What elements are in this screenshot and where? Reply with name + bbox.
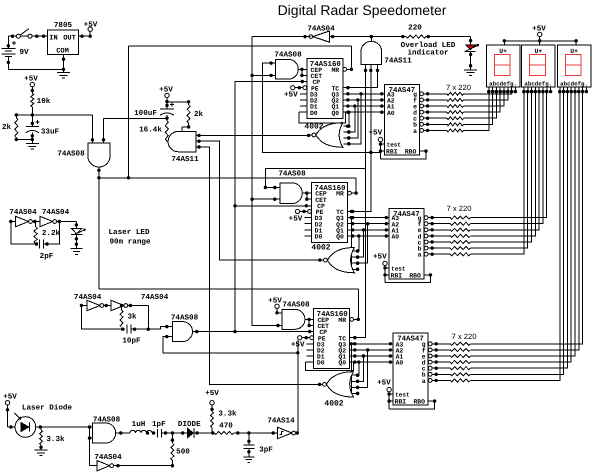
resistor 3.3k (rx bias) [210,405,237,433]
photodiode D3 laser receiver [15,413,36,437]
wire reset branch up-left [129,46,352,178]
wire Q0 to 4002 in1 stage 1 [346,111,351,128]
power terminal +5V (rx bias) [205,390,219,405]
and-gate U2a 74AS08 (reset gate) [57,143,110,167]
counter U6 74AS160 (stage 2) [312,183,348,243]
pin labels 74AS160 stage 1 [310,67,339,117]
svg-text:3pF: 3pF [259,446,273,455]
svg-text:U+: U+ [570,48,578,55]
svg-text:+5V: +5V [373,253,387,261]
svg-text:RBO: RBO [409,273,421,280]
and-gate U2b 74AS08 (stage1 clk) [274,51,302,80]
svg-text:MR: MR [336,191,344,198]
svg-text:D0: D0 [315,234,323,241]
svg-text:+5V: +5V [84,22,98,30]
decoder U13 74AS47 (stage 3) [393,333,428,405]
wire gate4 in1 from +5V [275,309,282,315]
resistor 2k (reset) [2,115,18,138]
wire 16.4k to gate out [167,140,172,143]
wire clock to CP2 [235,204,312,207]
svg-text:MR: MR [338,317,346,324]
resistor 220 (overload) [403,24,430,39]
wire Q1 to 4002 in2 stage 2 [356,228,365,259]
pin bubbles segments stage 2 [424,216,434,256]
text overload label [401,41,456,58]
svg-text:COM: COM [56,48,69,56]
wire gate5 output clock [193,330,314,333]
wire +5V to 2k [167,100,190,103]
wire T1 out to T2 in [33,220,40,223]
wire 3.3k to ground [39,445,42,450]
wire +5V test RBI stage 1 [379,142,385,159]
wire 10k to node [31,107,34,127]
pin stubs display 3 [558,87,588,93]
display DS3 7-segment [558,45,591,87]
wire rail to T6 [90,465,97,467]
pin stubs 4002 stage 2 [352,249,359,271]
wire RBO loop stage 3 [389,399,436,409]
pin MR stage 3 [350,318,360,322]
wire receiver rail vertical [250,37,278,326]
and-gate U3a 74AS11 (osc2) [168,131,199,164]
svg-text:Q0: Q0 [336,234,344,241]
wire D0-Q0 loop stage 3 [306,362,354,370]
power terminal +5V (reset rc) [24,76,38,87]
svg-text:RBO: RBO [413,399,425,406]
and-gate U2d 74AS08 (stage3 clk) [282,301,310,330]
inverter U13a 74AS04 [9,208,37,227]
wire stage2 gate in1 tap [265,168,365,187]
wire gate4 out to CEP3 CET3 [305,318,314,328]
and-gate U3b 74AS11 (TC combine) [361,41,412,65]
svg-text:74AS04: 74AS04 [94,453,122,462]
power terminal +5V (osc2) [159,87,173,98]
svg-text:U+: U+ [534,48,542,55]
wire coil to 1pF [146,431,156,434]
resistor 10k [31,93,51,107]
wire 10pF right [131,327,167,331]
svg-text:Q0: Q0 [338,360,346,367]
text laser diode label [22,404,73,413]
wire gate1 output [97,167,100,180]
wire +5V to 10k [31,87,34,94]
svg-text:1pF: 1pF [152,421,166,429]
ground below 33uF [26,140,39,150]
svg-text:abcdefg.: abcdefg. [524,80,552,87]
svg-text:test: test [391,265,406,272]
pin stubs D2 D1 stage 3 [307,350,314,356]
wire T4 out down [147,306,149,330]
svg-text:3.3k: 3.3k [46,435,65,444]
svg-text:U+: U+ [499,48,507,55]
svg-text:2k: 2k [194,110,204,119]
wire gate3 out to CEP2 CET2 [302,191,311,200]
wire +5V test RBI stage 3 [387,392,393,409]
svg-text:100uF: 100uF [134,109,157,118]
pin MR stage 2 [348,191,358,195]
resistor 500 [171,433,191,466]
svg-text:500: 500 [176,448,190,457]
wire RBO loop stage 2 [385,273,432,283]
pin labels 74AS47 stage 1 [386,91,417,156]
power terminal +5V (47 stage 1) [368,130,382,142]
svg-text:Laser Diode: Laser Diode [22,404,73,413]
wire T3 input [80,304,87,307]
wire inverter input row [329,35,404,38]
svg-text:+5V: +5V [289,215,303,223]
wire T3 out to T4 in [104,304,111,307]
wire inverter out to receiver rail [252,35,311,38]
counter U5 74AS160 (stage 1) [307,59,343,119]
wire +5V display rail [503,37,578,45]
pin stubs display 2 [522,87,552,93]
pin stub gate6 in2 [88,436,93,439]
pin stub D0 stage 2 [305,235,312,237]
display DS2 7-segment [522,45,555,87]
svg-text:74AS14: 74AS14 [267,417,295,426]
wire Q0 to 4002 in1 stage 2 [356,234,361,252]
svg-text:indicator: indicator [407,49,448,58]
wire gate2 in1 +5V loop [263,61,381,154]
led D2 laser (TX) [71,228,85,248]
power terminal +5V (7805 out) [84,22,98,32]
svg-text:3.3k: 3.3k [218,410,237,419]
pin MR stage 1 [343,67,353,71]
svg-text:4002: 4002 [311,244,330,253]
wire cap bottom row [104,118,168,120]
svg-text:Laser LED: Laser LED [108,229,149,237]
and-gate U2e 74AS08 (clock) [171,314,199,342]
wire 74AS11#1 in3 from 4002#3 [199,147,321,386]
wire T1 input [9,220,16,223]
pin bubbles segments stage 3 [428,342,438,382]
svg-text:74AS08: 74AS08 [278,170,306,179]
svg-text:74AS11: 74AS11 [384,57,412,66]
counter U7 74AS160 (stage 3) [314,309,350,369]
switch SW1 [8,29,47,39]
pin stubs display 1 [487,87,517,93]
svg-text:+5V: +5V [377,380,391,388]
svg-text:90m range: 90m range [109,238,150,247]
wire TC2 to 74AS11#2 in2 [347,70,372,213]
pin labels 74AS160 stage 2 [315,191,344,241]
svg-text:abcdefg.: abcdefg. [489,80,517,87]
svg-text:2k: 2k [2,123,12,132]
wire node row [15,113,93,116]
wire Q1 to 4002 in2 stage 1 [347,104,356,133]
svg-text:74AS08: 74AS08 [274,51,302,60]
ground below 3pF [243,457,254,463]
wire 74AS11#1 in1 from 4002#1 [199,134,310,137]
svg-text:a: a [422,378,426,385]
resistor array 7x220 stage 1 [428,83,471,132]
wire Q to A bus stage 1 [343,92,385,114]
inverter U13e 74AS04 (rx) [94,453,122,471]
diode D4 detector [188,428,194,438]
wire 2k to gate top [182,123,190,131]
power terminal +5V (47 stage 3) [377,380,391,392]
pin stubs gate5 [165,325,172,338]
capacitor 33uF [26,120,60,139]
wire TC3 to 74AS11#2 in1 [350,70,366,339]
ground below 7805 [57,69,70,78]
wire reset line horizontal [99,176,356,179]
svg-text:A0: A0 [396,360,404,367]
inverter U4a 74AS04 (overload) [307,25,335,43]
svg-text:a: a [413,128,417,135]
wire segment bus stage 3 [470,90,584,381]
wire Q2 to 4002 in3 stage 1 [347,98,359,139]
resistor array 7x220 stage 3 [436,332,476,382]
pin stub gate2 in2 [271,74,275,76]
wire D0-Q0 loop stage 1 [299,112,345,123]
inverter U13c 74AS04 [74,293,104,311]
power terminal +5V (stage3 gate) [268,298,282,309]
capacitor 2pF [39,240,53,262]
svg-text:A0: A0 [387,110,395,117]
and-gate U2c 74AS08 (stage2 clk) [278,170,306,204]
wire 4002 output stub stage 1 [309,134,312,136]
wire gate5 in2 loop [163,337,299,355]
wire clock rail [233,80,306,333]
wire Q to A bus stage 3 [350,342,393,364]
resistor 3k [120,304,137,327]
resistor 470 [215,422,278,435]
pin stubs D2 D1 stage 1 [300,100,307,106]
pin stubs 4002 stage 1 [343,125,350,146]
svg-text:Digital Radar Speedometer: Digital Radar Speedometer [278,2,447,18]
net +5V to D3 stage 1 [284,92,307,100]
pin stubs D2 D1 stage 2 [305,224,312,230]
pin stubs 74AS11#2 inputs [364,65,379,72]
decoder U12 74AS47 (stage 2) [389,208,424,279]
wire Q2 to 4002 in3 stage 3 [356,348,370,389]
inverter U13b 74AS04 [40,208,70,227]
wire +5V to photodiode [6,405,15,429]
wire 7805 OUT [78,31,92,38]
svg-text:74AS04: 74AS04 [141,293,169,302]
svg-text:7 x 220: 7 x 220 [447,204,472,213]
wire reset to MR2 [355,178,357,193]
svg-text:10pF: 10pF [122,337,141,346]
resistor 2k (osc2) [187,102,203,123]
wire diode out [194,431,215,434]
pin labels 74AS47 stage 2 [391,215,422,280]
nor-gate U8 4002 stage 1 [304,122,343,147]
wire gate1 output down rail [99,178,358,320]
led D1 overload (red) [465,45,479,70]
wire +5V osc2 [165,98,168,110]
pin stub gate3 in2 [275,198,280,200]
pin PE-bar stage 3 [298,336,314,340]
pin stubs 74AS11#1 inputs [196,134,201,149]
wire +5V test RBI stage 2 [383,266,389,283]
power terminal +5V (47 stage 2) [373,253,387,265]
schmitt inverter U14 74AS14 [267,417,295,439]
wire COM down [62,55,65,70]
wire RBO loop stage 1 [381,149,428,158]
pin TC stage 1 [343,86,350,89]
wire 9V negative to COM [8,68,65,71]
capacitor 100uF [134,103,174,120]
svg-text:+5V: +5V [284,92,298,100]
svg-text:7 x 220: 7 x 220 [452,332,477,341]
svg-text:D0: D0 [310,110,318,117]
pin labels 74AS47 stage 3 [395,341,426,406]
wire node to gate in1 [91,115,94,143]
wire rail to gate3 in2 [252,198,276,201]
wire gate6 in2 rail [89,427,91,466]
wire 74AS11#2 output up [370,37,372,42]
svg-text:test: test [395,392,410,399]
svg-text:RBI: RBI [391,273,403,280]
wire osc3 feedback [81,306,125,331]
svg-text:3k: 3k [127,313,137,322]
pin TC stage 3 [350,336,357,339]
svg-text:OUT: OUT [63,34,76,42]
wire T6 out to 500 [114,464,174,467]
decoder U11 74AS47 (stage 1) [384,85,419,156]
power terminal +5V (photodiode) [3,394,17,405]
svg-text:9V: 9V [19,48,29,57]
wire gate6 output [116,431,130,434]
power terminal +5V (displays) [532,26,546,37]
capacitor 1pF [152,421,166,437]
pin TC stage 2 [348,210,355,213]
ground below overload LED [464,70,477,76]
svg-text:+5V: +5V [3,394,17,402]
wire Q1 to 4002 in2 stage 3 [356,354,365,383]
wire photodiode out [36,425,93,428]
net +5V to D3 stage 2 [289,215,312,223]
pin stub gate4 in2 [278,325,282,327]
svg-text:74AS08: 74AS08 [282,301,310,310]
and-gate U2f 74AS08 (rx) [93,416,121,444]
svg-text:470: 470 [219,422,233,431]
svg-text:+5V: +5V [205,390,219,398]
pin PE-bar stage 2 [295,209,311,213]
wire 2pF right [43,222,59,246]
svg-text:A0: A0 [391,234,399,241]
regulator U1 7805 [48,21,79,56]
inverter U13d 74AS04 [111,293,169,311]
wire T2 out [57,220,77,223]
svg-text:74AS04: 74AS04 [42,208,70,217]
svg-text:7805: 7805 [54,21,73,30]
inductor 1uH [130,421,152,433]
display DS1 7-segment [487,45,520,87]
wire 74AS14 output up [296,340,299,435]
nor-gate U10 4002 stage 3 [323,372,354,409]
wire rail to gate2 in2 [252,74,273,77]
svg-text:4002: 4002 [324,400,343,409]
wire 74AS11#1 in2 from 4002#2 [199,141,322,262]
wire gate2 in1 stub [271,62,275,64]
svg-text:DIODE: DIODE [178,420,201,429]
pin PE-bar stage 1 [291,86,307,90]
capacitor 10pF [122,325,141,346]
wire segment bus stage 2 [470,90,548,254]
resistor 2.2k [34,222,60,244]
wire 4002 output stub stage 3 [320,383,323,385]
wire Q3 to 4002 in4 stage 3 [350,342,360,395]
svg-text:74AS04: 74AS04 [307,25,335,34]
wire 220 to LED [428,37,472,45]
svg-text:RBI: RBI [395,399,407,406]
pin stubs 4002 stage 3 [352,374,359,396]
svg-text:D0: D0 [317,360,325,367]
svg-text:74AS11: 74AS11 [171,155,199,164]
wire Q2 to 4002 in3 stage 2 [356,222,370,265]
wire segment bus stage 1 [464,90,514,130]
net +5V to D3 stage 3 [291,342,314,350]
wire 1pF to diode [161,431,187,434]
svg-text:74AS08: 74AS08 [57,150,85,159]
wire to laser LED [75,222,78,229]
wire T4 out [128,304,148,307]
nor-gate U9 4002 stage 2 [311,244,354,273]
svg-text:abcdefg.: abcdefg. [560,80,588,87]
pin labels 74AS160 stage 3 [317,317,346,367]
wire Q3 to 4002 in4 stage 2 [350,216,360,271]
svg-text:a: a [418,252,422,259]
svg-text:10k: 10k [37,97,51,106]
svg-text:7 x 220: 7 x 220 [446,83,471,92]
ground below 3.3k [35,450,48,456]
wire 2k bottom [15,138,34,142]
svg-text:220: 220 [408,24,422,33]
text laser LED note [108,229,150,247]
svg-text:2.2k: 2.2k [42,229,61,238]
junction stage3 gate in2 [276,324,279,327]
resistor 16.4k [139,119,168,141]
battery 9V [1,36,29,69]
capacitor 3pF [243,433,273,457]
svg-text:+5V: +5V [368,130,382,138]
wire Q0 to 4002 in1 stage 3 [356,360,361,377]
text diode label [178,420,201,429]
wire cap line to gate in2 [102,119,105,144]
title text [278,2,447,18]
wire TC1 to 74AS11#2 in3 [343,70,378,89]
svg-text:test: test [387,142,402,149]
wire osc1 feedback [11,222,38,246]
svg-text:74AS04: 74AS04 [9,208,37,217]
svg-text:RBO: RBO [405,149,417,156]
svg-text:33uF: 33uF [41,128,60,137]
wire gate3 in1 stub [264,186,280,189]
wire Q3 to 4002 in4 stage 1 [347,92,363,145]
wire 2.2k bottom [35,242,37,245]
svg-text:1uH: 1uH [132,421,146,429]
svg-text:MR: MR [331,67,339,74]
svg-text:IN: IN [49,34,57,42]
svg-text:Q0: Q0 [331,110,339,117]
wire gate2 out to CEP1 CET1 [298,68,307,78]
svg-text:16.4k: 16.4k [139,126,162,135]
svg-text:2pF: 2pF [40,252,54,261]
resistor 3.3k (photodiode) [40,427,66,445]
ground below laser LED [70,249,82,255]
svg-text:RBI: RBI [386,149,398,156]
wire 4002 output stub stage 2 [320,259,323,261]
resistor array 7x220 stage 2 [432,204,471,256]
pin bubbles segments stage 1 [420,92,430,132]
wire Q to A bus stage 2 [348,216,389,238]
